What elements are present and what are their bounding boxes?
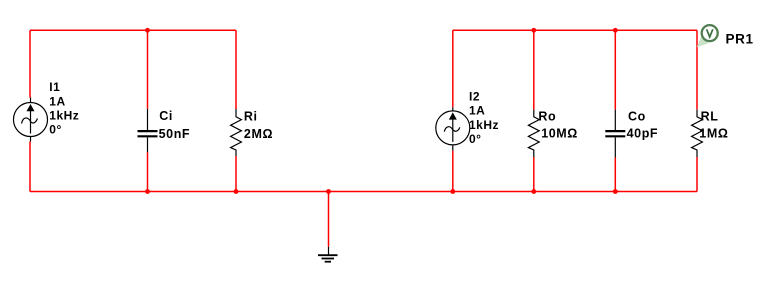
svg-text:1A: 1A xyxy=(469,104,485,118)
svg-text:0°: 0° xyxy=(469,132,481,146)
svg-text:1A: 1A xyxy=(49,94,65,108)
svg-text:Co: Co xyxy=(628,109,646,123)
svg-text:1kHz: 1kHz xyxy=(49,109,79,123)
svg-text:50nF: 50nF xyxy=(159,127,191,141)
svg-text:PR1: PR1 xyxy=(726,31,754,46)
svg-text:40pF: 40pF xyxy=(627,127,659,141)
svg-text:Ri: Ri xyxy=(244,110,258,124)
svg-text:2MΩ: 2MΩ xyxy=(244,127,273,141)
svg-text:I2: I2 xyxy=(469,90,480,104)
svg-text:0°: 0° xyxy=(49,123,61,137)
svg-text:I1: I1 xyxy=(49,80,60,94)
svg-text:Ro: Ro xyxy=(538,110,556,124)
svg-text:1MΩ: 1MΩ xyxy=(699,127,728,141)
svg-text:Ci: Ci xyxy=(159,109,173,123)
svg-text:1kHz: 1kHz xyxy=(469,118,499,132)
svg-text:10MΩ: 10MΩ xyxy=(541,127,578,141)
svg-text:RL: RL xyxy=(701,109,719,123)
